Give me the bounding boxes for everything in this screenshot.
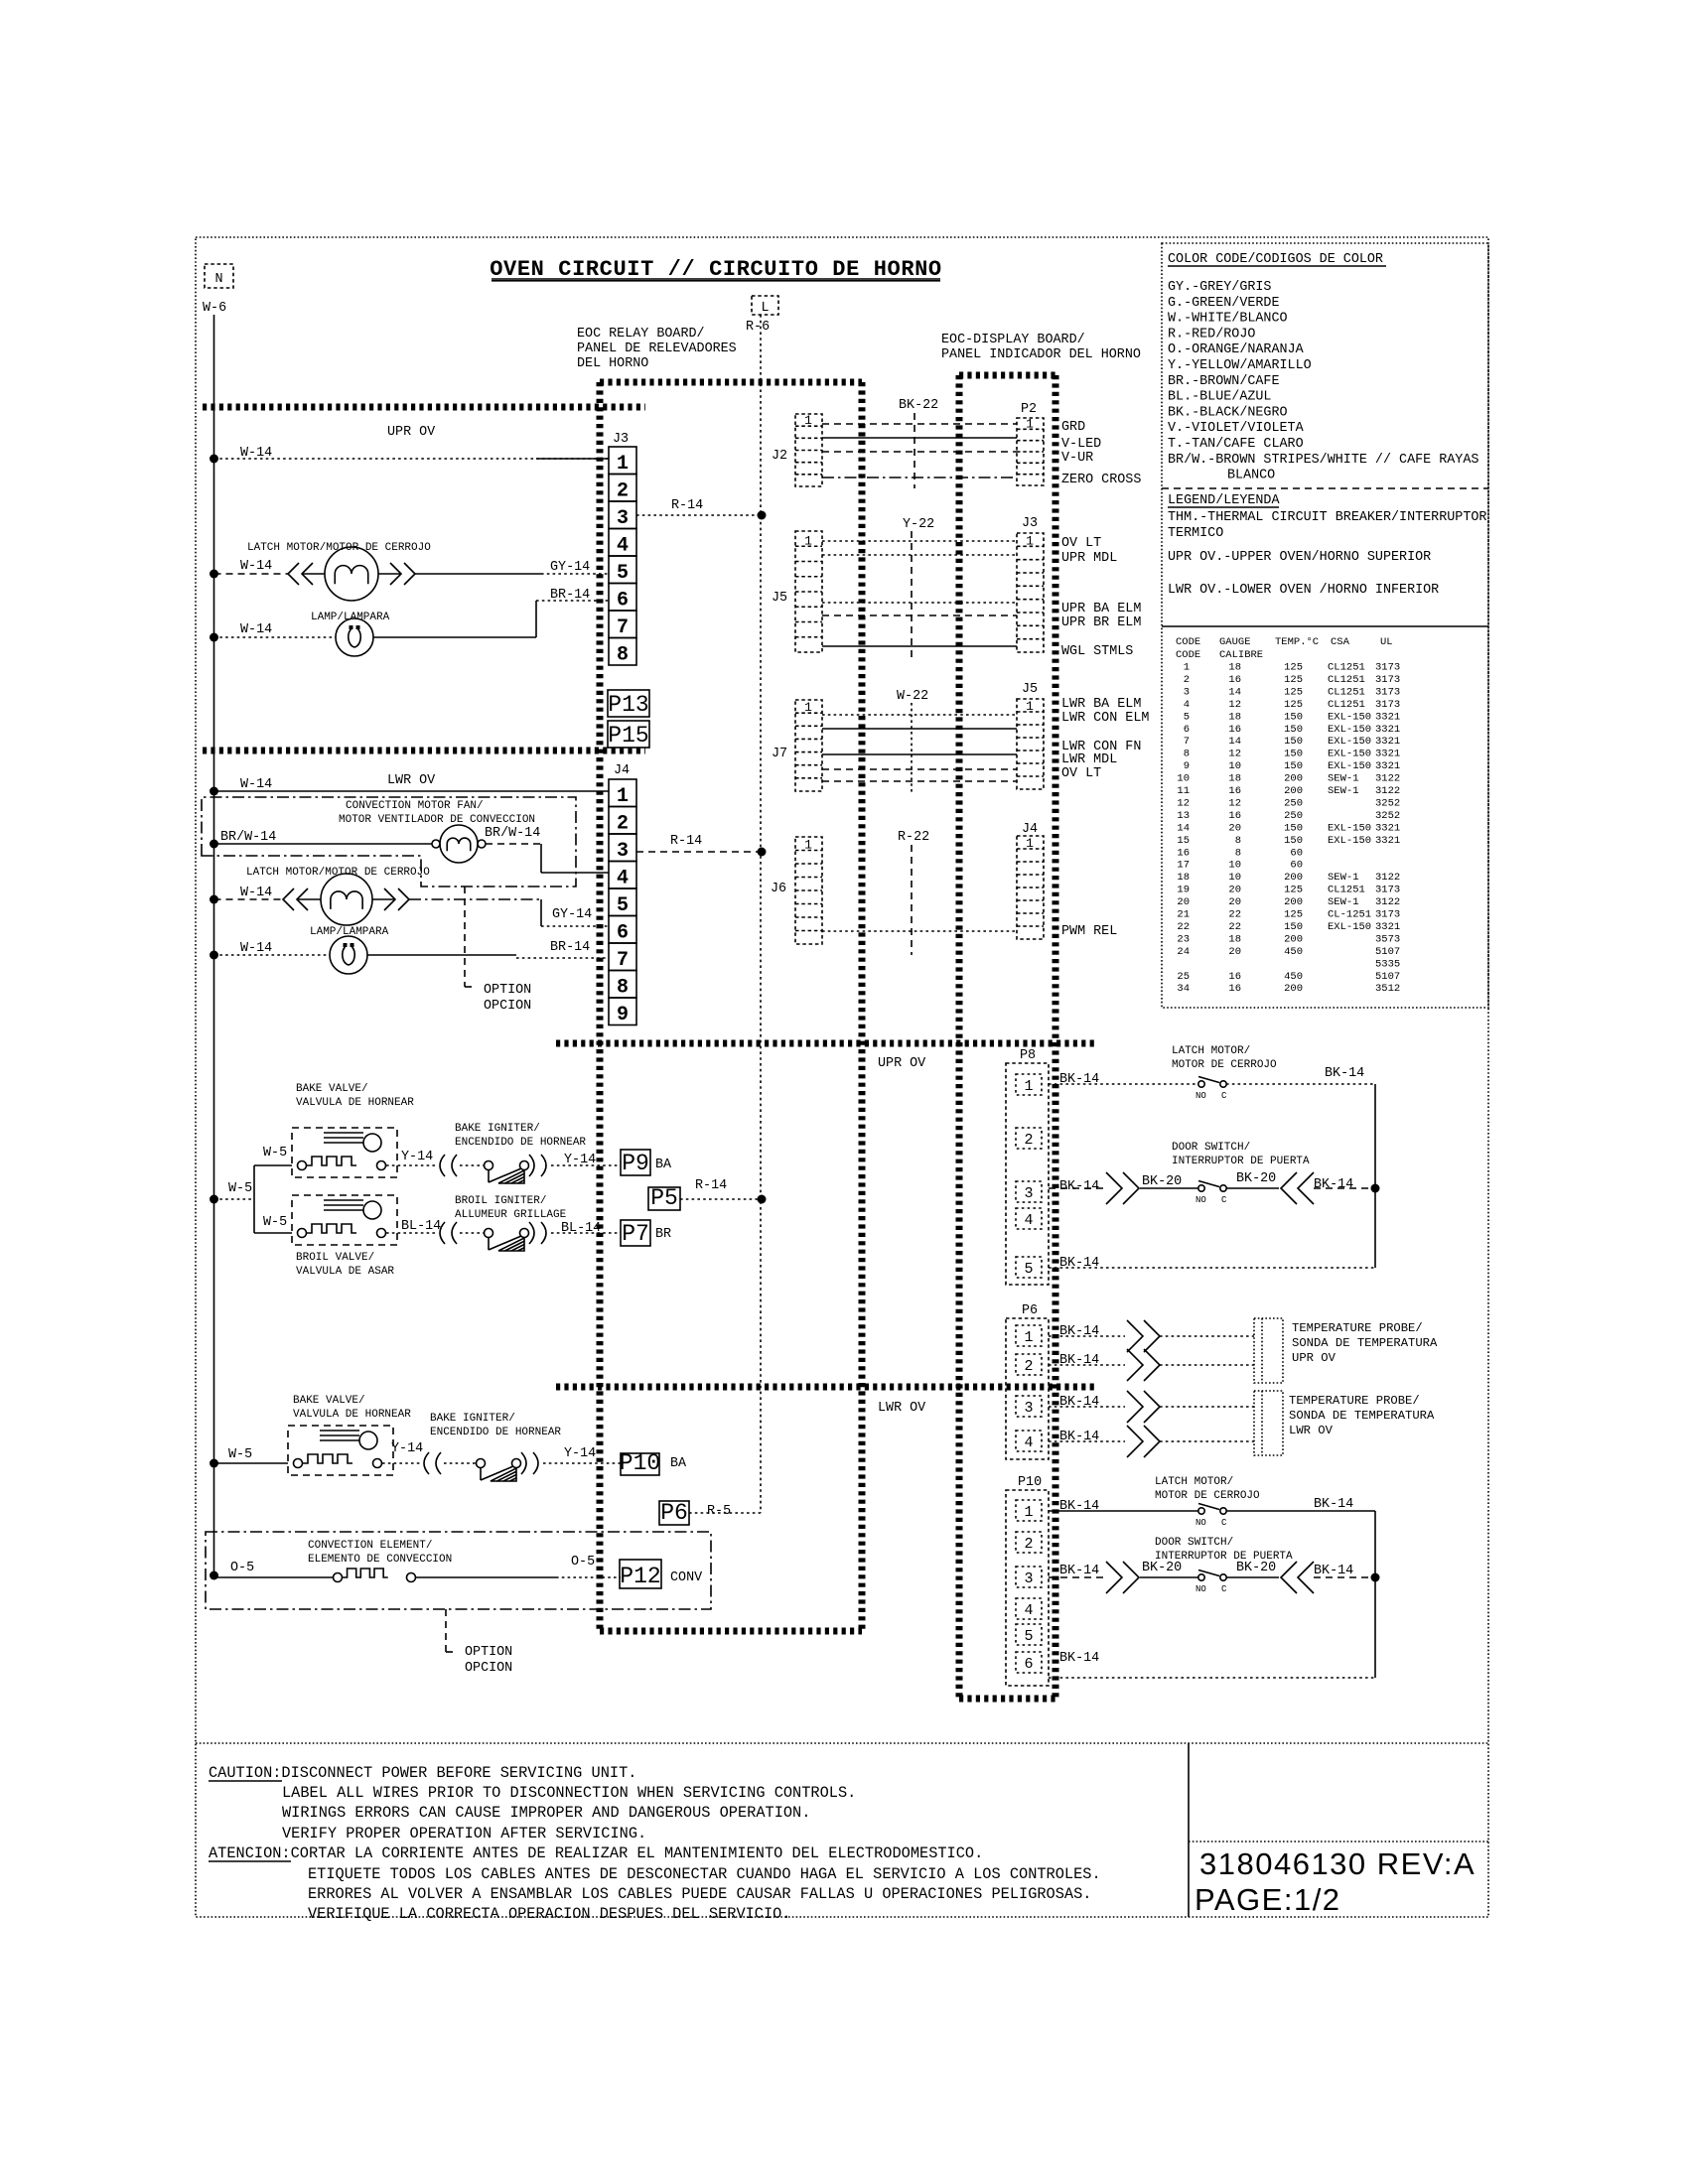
svg-text:V-UR: V-UR: [1061, 451, 1093, 466]
svg-text:17: 17: [1177, 860, 1190, 872]
svg-text:V-LED: V-LED: [1061, 437, 1101, 452]
svg-text:125: 125: [1284, 885, 1303, 896]
svg-text:BK-22: BK-22: [899, 398, 938, 413]
svg-text:21: 21: [1177, 909, 1190, 921]
svg-text:LEGEND/LEYENDA: LEGEND/LEYENDA: [1168, 493, 1280, 508]
svg-text:DEL HORNO: DEL HORNO: [577, 356, 648, 371]
svg-text:W-5: W-5: [228, 1447, 252, 1462]
svg-text:12: 12: [1228, 749, 1241, 760]
svg-text:ZERO CROSS: ZERO CROSS: [1061, 473, 1141, 487]
svg-text:6: 6: [617, 921, 629, 944]
svg-text:20: 20: [1177, 896, 1190, 908]
svg-text:EXL-150: EXL-150: [1328, 749, 1371, 760]
svg-text:ELEMENTO DE CONVECCION: ELEMENTO DE CONVECCION: [308, 1554, 452, 1566]
svg-text:1: 1: [1024, 1504, 1033, 1521]
svg-text:P12: P12: [620, 1564, 660, 1589]
svg-text:BAKE IGNITER/: BAKE IGNITER/: [455, 1123, 540, 1135]
svg-text:Y.-YELLOW/AMARILLO: Y.-YELLOW/AMARILLO: [1168, 358, 1312, 373]
svg-text:Y-14: Y-14: [401, 1150, 433, 1164]
svg-text:BK-20: BK-20: [1236, 1171, 1276, 1186]
svg-text:1: 1: [804, 700, 812, 715]
svg-text:24: 24: [1177, 946, 1190, 958]
svg-text:22: 22: [1177, 921, 1190, 933]
svg-text:18: 18: [1228, 662, 1241, 674]
svg-text:11: 11: [1177, 785, 1190, 797]
svg-text:GY.-GREY/GRIS: GY.-GREY/GRIS: [1168, 280, 1271, 295]
svg-text:18: 18: [1228, 711, 1241, 723]
svg-text:MOTOR VENTILADOR DE CONVECCION: MOTOR VENTILADOR DE CONVECCION: [339, 814, 535, 826]
svg-text:1: 1: [1026, 836, 1034, 851]
svg-text:20: 20: [1228, 885, 1241, 896]
svg-text:W-5: W-5: [228, 1181, 252, 1196]
svg-text:125: 125: [1284, 909, 1303, 921]
svg-text:O.-ORANGE/NARANJA: O.-ORANGE/NARANJA: [1168, 342, 1305, 357]
svg-text:ERRORES AL VOLVER A ENSAMBLAR: ERRORES AL VOLVER A ENSAMBLAR LOS CABLES…: [308, 1885, 1091, 1903]
svg-text:150: 150: [1284, 724, 1303, 736]
svg-text:OPTION: OPTION: [465, 1645, 512, 1660]
svg-text:3321: 3321: [1375, 749, 1400, 760]
svg-text:8: 8: [617, 976, 629, 999]
svg-text:16: 16: [1228, 785, 1241, 797]
svg-text:EXL-150: EXL-150: [1328, 736, 1371, 748]
svg-text:7: 7: [1184, 736, 1190, 748]
svg-text:CAUTION:DISCONNECT POWER BEFOR: CAUTION:DISCONNECT POWER BEFORE SERVICIN…: [209, 1764, 636, 1782]
svg-text:5: 5: [1024, 1628, 1033, 1645]
svg-text:2: 2: [1024, 1358, 1033, 1375]
svg-text:3173: 3173: [1375, 662, 1400, 674]
svg-text:19: 19: [1177, 885, 1190, 896]
svg-text:J4: J4: [614, 763, 630, 778]
svg-text:BK-14: BK-14: [1059, 1564, 1099, 1578]
svg-text:20: 20: [1228, 946, 1241, 958]
svg-text:2: 2: [1024, 1132, 1033, 1149]
svg-text:ALLUMEUR GRILLAGE: ALLUMEUR GRILLAGE: [455, 1209, 567, 1221]
svg-text:R-22: R-22: [898, 830, 929, 845]
svg-text:P5: P5: [650, 1185, 678, 1211]
svg-text:1: 1: [617, 453, 629, 476]
svg-text:Y-14: Y-14: [564, 1446, 596, 1461]
svg-text:LATCH MOTOR/: LATCH MOTOR/: [1155, 1476, 1233, 1488]
svg-text:3173: 3173: [1375, 674, 1400, 686]
svg-text:OV LT: OV LT: [1061, 766, 1101, 781]
svg-text:CL1251: CL1251: [1328, 674, 1365, 686]
svg-text:6: 6: [1024, 1656, 1033, 1673]
svg-text:23: 23: [1177, 933, 1190, 945]
svg-text:16: 16: [1228, 724, 1241, 736]
svg-text:13: 13: [1177, 810, 1190, 822]
svg-text:8: 8: [1235, 847, 1241, 859]
svg-text:3321: 3321: [1375, 921, 1400, 933]
svg-text:TEMPERATURE PROBE/: TEMPERATURE PROBE/: [1289, 1394, 1420, 1408]
svg-text:3: 3: [1184, 686, 1190, 698]
svg-text:NO: NO: [1196, 1518, 1206, 1528]
svg-text:P7: P7: [622, 1221, 649, 1247]
svg-text:P15: P15: [608, 723, 648, 749]
svg-text:BK-20: BK-20: [1236, 1561, 1276, 1575]
svg-text:P13: P13: [608, 692, 648, 718]
svg-text:BR/W.-BROWN STRIPES/WHITE // C: BR/W.-BROWN STRIPES/WHITE // CAFE RAYAS: [1168, 453, 1478, 468]
svg-text:LWR MDL: LWR MDL: [1061, 752, 1117, 767]
svg-text:ENCENDIDO DE HORNEAR: ENCENDIDO DE HORNEAR: [455, 1137, 586, 1149]
svg-text:CONVECTION MOTOR FAN/: CONVECTION MOTOR FAN/: [346, 800, 484, 812]
svg-text:BLANCO: BLANCO: [1227, 469, 1275, 483]
svg-text:22: 22: [1228, 921, 1241, 933]
svg-text:WGL STMLS: WGL STMLS: [1061, 644, 1133, 659]
svg-text:4: 4: [1024, 1602, 1033, 1619]
svg-text:DOOR SWITCH/: DOOR SWITCH/: [1172, 1142, 1250, 1154]
svg-text:6: 6: [617, 589, 629, 612]
svg-text:LAMP/LAMPARA: LAMP/LAMPARA: [311, 612, 390, 623]
svg-text:J2: J2: [772, 449, 787, 464]
svg-text:TERMICO: TERMICO: [1168, 526, 1223, 541]
svg-text:UPR OV.-UPPER OVEN/HORNO SUPER: UPR OV.-UPPER OVEN/HORNO SUPERIOR: [1168, 550, 1431, 565]
svg-text:34: 34: [1177, 983, 1190, 995]
svg-text:BK-14: BK-14: [1314, 1564, 1353, 1578]
svg-text:Y-14: Y-14: [391, 1441, 423, 1456]
svg-text:16: 16: [1228, 971, 1241, 983]
svg-text:60: 60: [1290, 860, 1303, 872]
svg-text:22: 22: [1228, 909, 1241, 921]
svg-text:Y-22: Y-22: [903, 517, 934, 532]
svg-text:T.-TAN/CAFE CLARO: T.-TAN/CAFE CLARO: [1168, 437, 1304, 452]
svg-text:7: 7: [617, 949, 629, 972]
svg-text:1: 1: [1026, 699, 1034, 714]
svg-text:BR.-BROWN/CAFE: BR.-BROWN/CAFE: [1168, 374, 1280, 389]
svg-text:VALVULA DE HORNEAR: VALVULA DE HORNEAR: [296, 1097, 414, 1109]
svg-text:18: 18: [1177, 872, 1190, 884]
svg-text:BROIL VALVE/: BROIL VALVE/: [296, 1252, 374, 1264]
svg-text:N: N: [214, 272, 222, 287]
svg-text:BK.-BLACK/NEGRO: BK.-BLACK/NEGRO: [1168, 405, 1288, 420]
svg-text:BR/W-14: BR/W-14: [485, 826, 540, 841]
svg-text:9: 9: [617, 1004, 629, 1026]
svg-text:LABEL ALL WIRES PRIOR TO DISCO: LABEL ALL WIRES PRIOR TO DISCONNECTION W…: [282, 1784, 856, 1802]
svg-text:4: 4: [617, 534, 629, 557]
svg-text:LATCH MOTOR/MOTOR DE CERROJO: LATCH MOTOR/MOTOR DE CERROJO: [247, 542, 431, 554]
svg-text:BR-14: BR-14: [550, 588, 590, 603]
svg-text:318046130 REV:A: 318046130 REV:A: [1199, 1846, 1476, 1881]
svg-text:ATENCION:CORTAR LA CORRIENTE A: ATENCION:CORTAR LA CORRIENTE ANTES DE RE…: [209, 1844, 983, 1862]
svg-text:EXL-150: EXL-150: [1328, 835, 1371, 847]
svg-text:125: 125: [1284, 662, 1303, 674]
svg-text:CL-1251: CL-1251: [1328, 909, 1371, 921]
svg-text:BR/W-14: BR/W-14: [220, 830, 276, 845]
svg-text:BAKE VALVE/: BAKE VALVE/: [296, 1083, 368, 1095]
svg-text:BK-20: BK-20: [1142, 1174, 1182, 1189]
svg-text:CONVECTION ELEMENT/: CONVECTION ELEMENT/: [308, 1540, 432, 1552]
svg-text:OPCION: OPCION: [465, 1661, 512, 1676]
svg-text:14: 14: [1228, 736, 1241, 748]
svg-text:CL1251: CL1251: [1328, 662, 1365, 674]
svg-text:5: 5: [617, 562, 629, 585]
svg-text:UPR MDL: UPR MDL: [1061, 551, 1117, 566]
svg-text:J3: J3: [613, 432, 629, 447]
svg-text:250: 250: [1284, 797, 1303, 809]
svg-text:3173: 3173: [1375, 686, 1400, 698]
svg-text:LWR OV: LWR OV: [878, 1401, 925, 1416]
svg-text:PWM REL: PWM REL: [1061, 924, 1117, 939]
svg-text:LWR BA ELM: LWR BA ELM: [1061, 697, 1141, 712]
svg-text:2: 2: [617, 812, 629, 835]
svg-text:PANEL DE RELEVADORES: PANEL DE RELEVADORES: [577, 341, 737, 356]
svg-text:LWR OV: LWR OV: [387, 773, 435, 788]
svg-text:5107: 5107: [1375, 946, 1400, 958]
svg-text:2: 2: [1184, 674, 1190, 686]
svg-text:200: 200: [1284, 785, 1303, 797]
svg-text:2: 2: [1024, 1536, 1033, 1553]
svg-text:UPR OV: UPR OV: [387, 425, 435, 440]
svg-text:SONDA DE TEMPERATURA: SONDA DE TEMPERATURA: [1292, 1336, 1438, 1350]
svg-text:LWR OV: LWR OV: [1289, 1424, 1334, 1437]
svg-text:R-14: R-14: [671, 498, 703, 513]
svg-text:J5: J5: [1022, 682, 1038, 697]
svg-text:ENCENDIDO DE HORNEAR: ENCENDIDO DE HORNEAR: [430, 1427, 561, 1438]
svg-text:BK-14: BK-14: [1059, 1179, 1099, 1194]
svg-text:125: 125: [1284, 699, 1303, 711]
svg-text:3: 3: [1024, 1570, 1033, 1587]
svg-text:VALVULA DE HORNEAR: VALVULA DE HORNEAR: [293, 1409, 411, 1421]
svg-text:3173: 3173: [1375, 909, 1400, 921]
svg-text:UPR OV: UPR OV: [1292, 1351, 1336, 1365]
svg-text:P6: P6: [1022, 1303, 1038, 1318]
svg-text:16: 16: [1228, 810, 1241, 822]
svg-text:VERIFIQUE LA CORRECTA OPERACIO: VERIFIQUE LA CORRECTA OPERACION DESPUES …: [308, 1905, 791, 1923]
svg-text:BK-14: BK-14: [1314, 1177, 1353, 1192]
svg-text:1: 1: [1026, 533, 1034, 548]
svg-text:SEW-1: SEW-1: [1328, 896, 1359, 908]
svg-text:SEW-1: SEW-1: [1328, 785, 1359, 797]
svg-text:NO: NO: [1196, 1195, 1206, 1205]
svg-text:125: 125: [1284, 686, 1303, 698]
svg-text:LATCH MOTOR/MOTOR DE CERROJO: LATCH MOTOR/MOTOR DE CERROJO: [246, 867, 430, 879]
svg-text:3: 3: [617, 507, 629, 530]
svg-text:12: 12: [1177, 797, 1190, 809]
svg-text:1: 1: [1184, 662, 1190, 674]
svg-text:R-14: R-14: [670, 834, 702, 849]
svg-text:SONDA DE TEMPERATURA: SONDA DE TEMPERATURA: [1289, 1409, 1435, 1423]
svg-text:LWR OV.-LOWER OVEN /HORNO INFE: LWR OV.-LOWER OVEN /HORNO INFERIOR: [1168, 583, 1439, 598]
svg-text:GY-14: GY-14: [552, 907, 592, 922]
svg-text:MOTOR DE CERROJO: MOTOR DE CERROJO: [1155, 1490, 1260, 1502]
svg-text:W-14: W-14: [240, 622, 272, 637]
svg-text:12: 12: [1228, 797, 1241, 809]
svg-text:W-22: W-22: [897, 689, 928, 704]
svg-text:2: 2: [617, 479, 629, 502]
svg-text:18: 18: [1228, 773, 1241, 785]
svg-text:3122: 3122: [1375, 872, 1400, 884]
svg-text:4: 4: [1024, 1434, 1033, 1451]
svg-text:BAKE IGNITER/: BAKE IGNITER/: [430, 1413, 515, 1425]
svg-text:BAKE VALVE/: BAKE VALVE/: [293, 1395, 365, 1407]
svg-text:20: 20: [1228, 896, 1241, 908]
svg-text:SEW-1: SEW-1: [1328, 773, 1359, 785]
svg-text:3252: 3252: [1375, 810, 1400, 822]
svg-text:4: 4: [1184, 699, 1190, 711]
svg-text:P10: P10: [1018, 1475, 1042, 1490]
svg-text:UPR OV: UPR OV: [878, 1056, 925, 1071]
svg-text:UPR BR ELM: UPR BR ELM: [1061, 615, 1141, 630]
svg-text:BA: BA: [670, 1456, 687, 1471]
svg-text:ETIQUETE TODOS LOS CABLES ANTE: ETIQUETE TODOS LOS CABLES ANTES DE DESCO…: [308, 1865, 1101, 1883]
svg-text:150: 150: [1284, 736, 1303, 748]
svg-text:TEMP.°C: TEMP.°C: [1275, 636, 1319, 648]
svg-text:150: 150: [1284, 921, 1303, 933]
svg-text:W-6: W-6: [203, 301, 226, 316]
svg-text:200: 200: [1284, 773, 1303, 785]
svg-text:1: 1: [804, 413, 812, 428]
svg-text:450: 450: [1284, 946, 1303, 958]
svg-text:1: 1: [1026, 416, 1034, 431]
svg-text:3: 3: [1024, 1185, 1033, 1202]
svg-text:CSA: CSA: [1331, 636, 1350, 648]
svg-text:NO: NO: [1196, 1584, 1206, 1594]
svg-text:BL.-BLUE/AZUL: BL.-BLUE/AZUL: [1168, 390, 1271, 405]
svg-text:BROIL IGNITER/: BROIL IGNITER/: [455, 1195, 546, 1207]
svg-text:7: 7: [617, 616, 629, 639]
svg-text:O-5: O-5: [571, 1555, 595, 1570]
svg-text:L: L: [761, 301, 769, 316]
svg-text:3173: 3173: [1375, 699, 1400, 711]
svg-text:CL1251: CL1251: [1328, 686, 1365, 698]
svg-text:P6: P6: [660, 1500, 688, 1526]
svg-text:1: 1: [804, 533, 812, 548]
svg-text:8: 8: [1184, 749, 1190, 760]
svg-text:1: 1: [1024, 1078, 1033, 1095]
svg-text:J5: J5: [772, 591, 787, 606]
svg-text:UL: UL: [1380, 636, 1393, 648]
svg-text:P9: P9: [622, 1151, 649, 1176]
svg-text:200: 200: [1284, 983, 1303, 995]
svg-text:C: C: [1221, 1518, 1227, 1528]
svg-text:12: 12: [1228, 699, 1241, 711]
svg-text:3: 3: [617, 840, 629, 863]
svg-text:3122: 3122: [1375, 773, 1400, 785]
svg-text:200: 200: [1284, 933, 1303, 945]
svg-text:UPR BA ELM: UPR BA ELM: [1061, 602, 1141, 616]
svg-text:BK-20: BK-20: [1142, 1561, 1182, 1575]
svg-text:16: 16: [1228, 674, 1241, 686]
svg-text:PAGE:1/2: PAGE:1/2: [1195, 1882, 1341, 1917]
svg-text:C: C: [1221, 1584, 1227, 1594]
svg-text:CL1251: CL1251: [1328, 885, 1365, 896]
svg-text:5: 5: [1184, 711, 1190, 723]
svg-text:CL1251: CL1251: [1328, 699, 1365, 711]
svg-text:BR: BR: [655, 1227, 671, 1242]
svg-text:THM.-THERMAL CIRCUIT BREAKER/I: THM.-THERMAL CIRCUIT BREAKER/INTERRUPTOR: [1168, 510, 1486, 525]
svg-text:BK-14: BK-14: [1325, 1066, 1364, 1081]
svg-text:1: 1: [804, 838, 812, 853]
svg-text:16: 16: [1177, 847, 1190, 859]
svg-text:1: 1: [617, 785, 629, 808]
svg-text:450: 450: [1284, 971, 1303, 983]
svg-text:J7: J7: [772, 747, 787, 761]
svg-text:3321: 3321: [1375, 760, 1400, 772]
svg-text:C: C: [1221, 1195, 1227, 1205]
svg-text:3321: 3321: [1375, 724, 1400, 736]
svg-text:LWR CON ELM: LWR CON ELM: [1061, 711, 1149, 726]
svg-text:EXL-150: EXL-150: [1328, 760, 1371, 772]
svg-text:W-14: W-14: [240, 941, 272, 956]
svg-text:EXL-150: EXL-150: [1328, 921, 1371, 933]
svg-text:3573: 3573: [1375, 933, 1400, 945]
svg-text:J6: J6: [771, 882, 786, 896]
svg-text:W.-WHITE/BLANCO: W.-WHITE/BLANCO: [1168, 312, 1288, 327]
svg-text:V.-VIOLET/VIOLETA: V.-VIOLET/VIOLETA: [1168, 421, 1305, 436]
svg-text:LATCH MOTOR/: LATCH MOTOR/: [1172, 1045, 1250, 1057]
svg-text:150: 150: [1284, 749, 1303, 760]
svg-text:3173: 3173: [1375, 885, 1400, 896]
svg-text:3252: 3252: [1375, 797, 1400, 809]
svg-text:R-6: R-6: [746, 320, 770, 335]
svg-text:CALIBRE: CALIBRE: [1219, 649, 1263, 661]
svg-text:W-5: W-5: [263, 1215, 287, 1230]
svg-text:NO: NO: [1196, 1091, 1206, 1101]
svg-text:EOC-DISPLAY BOARD/: EOC-DISPLAY BOARD/: [941, 333, 1085, 347]
svg-text:3: 3: [1024, 1400, 1033, 1417]
svg-text:PANEL INDICADOR DEL HORNO: PANEL INDICADOR DEL HORNO: [941, 347, 1141, 362]
svg-text:250: 250: [1284, 810, 1303, 822]
svg-text:W-5: W-5: [263, 1146, 287, 1160]
svg-text:CODE: CODE: [1176, 649, 1200, 661]
svg-text:150: 150: [1284, 822, 1303, 834]
svg-text:9: 9: [1184, 760, 1190, 772]
svg-text:3321: 3321: [1375, 822, 1400, 834]
svg-text:3321: 3321: [1375, 835, 1400, 847]
svg-text:125: 125: [1284, 674, 1303, 686]
svg-text:P10: P10: [620, 1450, 660, 1476]
svg-text:EOC RELAY BOARD/: EOC RELAY BOARD/: [577, 327, 705, 341]
svg-text:16: 16: [1228, 983, 1241, 995]
svg-text:6: 6: [1184, 724, 1190, 736]
svg-text:18: 18: [1228, 933, 1241, 945]
svg-text:10: 10: [1228, 860, 1241, 872]
svg-text:1: 1: [1024, 1329, 1033, 1346]
svg-text:3321: 3321: [1375, 711, 1400, 723]
svg-text:14: 14: [1228, 686, 1241, 698]
svg-text:150: 150: [1284, 711, 1303, 723]
svg-text:BA: BA: [655, 1158, 672, 1172]
svg-text:OV LT: OV LT: [1061, 536, 1101, 551]
svg-text:EXL-150: EXL-150: [1328, 711, 1371, 723]
svg-text:5107: 5107: [1375, 971, 1400, 983]
svg-text:5335: 5335: [1375, 958, 1400, 970]
svg-text:10: 10: [1177, 773, 1190, 785]
svg-text:G.-GREEN/VERDE: G.-GREEN/VERDE: [1168, 296, 1280, 311]
svg-text:O-5: O-5: [230, 1561, 254, 1575]
svg-text:W-14: W-14: [240, 777, 272, 792]
svg-text:3321: 3321: [1375, 736, 1400, 748]
svg-text:150: 150: [1284, 835, 1303, 847]
svg-text:R.-RED/ROJO: R.-RED/ROJO: [1168, 327, 1255, 341]
svg-text:INTERRUPTOR DE PUERTA: INTERRUPTOR DE PUERTA: [1172, 1156, 1310, 1167]
svg-text:BK-14: BK-14: [1314, 1497, 1353, 1512]
svg-text:VALVULA DE ASAR: VALVULA DE ASAR: [296, 1266, 394, 1278]
svg-text:EXL-150: EXL-150: [1328, 724, 1371, 736]
svg-text:GY-14: GY-14: [550, 560, 590, 575]
svg-text:R-5: R-5: [707, 1504, 731, 1519]
svg-text:R-14: R-14: [695, 1178, 727, 1193]
svg-text:14: 14: [1177, 822, 1190, 834]
svg-text:10: 10: [1228, 872, 1241, 884]
svg-text:GAUGE: GAUGE: [1219, 636, 1251, 648]
svg-text:8: 8: [617, 643, 629, 666]
svg-text:CODE: CODE: [1176, 636, 1200, 648]
svg-text:WIRINGS ERRORS CAN CAUSE IMPRO: WIRINGS ERRORS CAN CAUSE IMPROPER AND DA…: [282, 1804, 810, 1822]
svg-text:DOOR SWITCH/: DOOR SWITCH/: [1155, 1537, 1233, 1549]
svg-text:W-14: W-14: [240, 886, 272, 900]
svg-text:3122: 3122: [1375, 785, 1400, 797]
svg-text:J3: J3: [1022, 516, 1038, 531]
